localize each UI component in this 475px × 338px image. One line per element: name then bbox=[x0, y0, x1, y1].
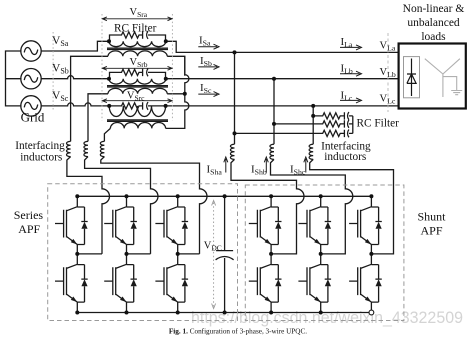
wire shunt inductor c to shunt leg3 bbox=[310, 159, 394, 254]
shunt APF dashed box bbox=[245, 185, 404, 321]
IGBT S3 top bbox=[155, 196, 188, 253]
node T_C left bbox=[107, 104, 111, 108]
ac source Vsa bbox=[21, 41, 41, 61]
svg-text:Grid: Grid bbox=[21, 110, 45, 125]
transformer T_A RC snubber (resistor + capacitor) bbox=[110, 31, 166, 41]
IGBT Sh1 top bbox=[249, 196, 282, 253]
svg-text:https://blog.csdn.net/weixin_4: https://blog.csdn.net/weixin_43322509 bbox=[191, 308, 463, 327]
wire phase B transformer to load line (hop over star) bbox=[166, 78, 399, 80]
svg-text:Series: Series bbox=[14, 208, 44, 222]
DC- bottom bus bbox=[77, 312, 371, 314]
svg-text:RC Filter: RC Filter bbox=[357, 117, 400, 129]
VDC dotted measure arrow bbox=[212, 201, 216, 309]
DC+ top bus with hops bbox=[77, 195, 371, 197]
wire shunt leg1 emitter to bus bbox=[270, 311, 272, 312]
IGBT S3 bottom bbox=[155, 254, 188, 311]
wire T_C secondary left to inductor bbox=[104, 128, 110, 141]
wire star vertical (hops over phase B and C lines) bbox=[166, 56, 189, 128]
wire phase B from source (hop over x=70.6) bbox=[41, 76, 109, 79]
node RC filter b bbox=[272, 122, 276, 126]
interfacing inductor Lc (series side) bbox=[100, 141, 104, 156]
IGBT Sh2 top bbox=[298, 196, 331, 253]
node series leg3 midpoint bbox=[176, 252, 180, 256]
wire shunt drop phase C bbox=[312, 106, 314, 144]
interfacing inductor Lb (series side) bbox=[84, 141, 88, 156]
shunt RC filter branch b bbox=[274, 120, 353, 128]
node T_A left bbox=[107, 39, 111, 43]
svg-text:APF: APF bbox=[420, 224, 442, 238]
node series leg2 top bbox=[125, 194, 129, 198]
svg-text:inductors: inductors bbox=[20, 152, 62, 164]
node shunt leg1 midpoint bbox=[269, 252, 273, 256]
IGBT S2 bottom bbox=[104, 254, 137, 311]
transformer T_C core bbox=[107, 120, 168, 121]
Vsra measure arrow bbox=[102, 17, 172, 21]
IGBT Sh3 bottom bbox=[349, 254, 382, 311]
node shunt leg2 top bbox=[319, 194, 323, 198]
node RC filter a bbox=[233, 131, 237, 135]
wire shunt leg2 emitter to bus bbox=[320, 311, 322, 312]
ac source Vsc bbox=[21, 96, 41, 116]
node series leg3 bottom bbox=[176, 311, 180, 315]
transformer T_A secondary winding bbox=[108, 51, 167, 56]
node shunt leg1 bottom bbox=[269, 311, 273, 315]
wire inductor La to series leg1 bbox=[67, 157, 110, 254]
wire inductor Lc to series leg3 bbox=[101, 157, 207, 254]
node shunt leg3 top bbox=[369, 194, 373, 198]
node T_C right bbox=[164, 104, 168, 108]
shunt RC filter branch c bbox=[313, 112, 353, 120]
transformer T_B RC snubber bbox=[110, 69, 166, 79]
svg-text:loads: loads bbox=[421, 31, 446, 43]
transformer T_C secondary winding bbox=[110, 122, 165, 128]
wire phase A transformer to load line bbox=[166, 41, 399, 52]
svg-text:APF: APF bbox=[18, 222, 40, 236]
wire series leg1 midpoint link bbox=[77, 253, 102, 255]
node phase B shunt tap bbox=[272, 77, 276, 81]
node shunt leg2 bottom bbox=[319, 311, 323, 315]
wire series leg3 emitter to bus bbox=[177, 311, 179, 312]
load box bbox=[399, 44, 466, 109]
wire series leg1 emitter to bus bbox=[76, 311, 78, 312]
node series leg1 top bbox=[75, 194, 79, 198]
transformer T_A primary winding bbox=[109, 41, 166, 46]
transformer T_B primary winding bbox=[109, 79, 166, 84]
wire inductor Lb to series leg2 bbox=[85, 157, 158, 254]
wire series leg2 emitter to bus bbox=[126, 311, 128, 312]
interfacing inductor La (series side) bbox=[66, 141, 70, 156]
wire phase C transformer to load line bbox=[166, 105, 399, 107]
diode symbol bbox=[407, 59, 416, 97]
node shunt leg2 midpoint bbox=[319, 252, 323, 256]
IGBT S1 top bbox=[55, 196, 88, 253]
svg-text:Interfacing: Interfacing bbox=[15, 140, 65, 152]
node RC filter c bbox=[311, 114, 315, 118]
series APF dashed box bbox=[48, 184, 238, 321]
node secondary star point bbox=[183, 92, 187, 96]
node T_B left bbox=[107, 77, 111, 81]
svg-text:RC Filter: RC Filter bbox=[114, 22, 157, 34]
node T_B right bbox=[164, 77, 168, 81]
node series leg1 bottom bbox=[75, 311, 79, 315]
svg-text:Fig. 1. Configuration of 3-pha: Fig. 1. Configuration of 3-phase, 3-wire… bbox=[169, 327, 307, 335]
interfacing inductor shunt a bbox=[230, 144, 234, 159]
wire T_B secondary right to star point bbox=[167, 93, 185, 95]
node series leg3 top bbox=[176, 194, 180, 198]
wire phase C from source (hops over x=70.6 and x=88) bbox=[41, 103, 109, 106]
IGBT S1 bottom bbox=[55, 254, 88, 311]
node series leg2 midpoint bbox=[125, 252, 129, 256]
dc-link capacitor VDC bbox=[216, 196, 234, 312]
node phase A shunt tap bbox=[233, 50, 237, 54]
shunt RC filter branch a (resistor + capacitor) bbox=[235, 130, 353, 138]
ac source Vsb bbox=[21, 69, 41, 89]
Vsrc measure arrow bbox=[102, 99, 172, 103]
wire T_B secondary left to inductor bbox=[88, 94, 108, 142]
node series leg2 bottom bbox=[125, 311, 129, 315]
svg-text:inductors: inductors bbox=[324, 151, 366, 163]
wire T_A secondary left to inductor bbox=[71, 56, 108, 141]
wire series leg2 midpoint link bbox=[127, 253, 151, 255]
wire T_A secondary right to star point bbox=[167, 56, 185, 75]
node shunt leg1 top bbox=[269, 194, 273, 198]
interfacing inductor shunt c bbox=[309, 144, 313, 159]
svg-text:unbalanced: unbalanced bbox=[407, 17, 460, 29]
wire shunt inductor a to shunt leg1 bbox=[231, 159, 304, 254]
wire shunt RC filter common node bbox=[352, 116, 354, 133]
transformer T_C RC on line (resistor + capacitor) bbox=[109, 102, 165, 110]
open node shunt leg3 bottom bbox=[369, 310, 374, 315]
node DC capacitor top bbox=[223, 194, 227, 198]
wire shunt inductor b to shunt leg2 bbox=[271, 159, 353, 254]
wire series leg3 midpoint link bbox=[178, 253, 200, 255]
measurement dotted line at sources bbox=[52, 32, 54, 110]
measurement dotted line Vsr right bbox=[171, 14, 173, 121]
diode rectifier block bbox=[404, 57, 420, 98]
grid bus bbox=[6, 51, 21, 106]
svg-text:Shunt: Shunt bbox=[417, 210, 446, 224]
transformer T_A core bbox=[107, 48, 168, 49]
transformer T_C primary winding bbox=[109, 106, 165, 117]
IGBT S2 top bbox=[104, 196, 137, 253]
transformer T_B core bbox=[107, 86, 168, 87]
wire phase A from source bbox=[41, 41, 109, 51]
wire shunt leg3 emitter to bus bbox=[370, 311, 372, 312]
wire shunt drop phase A bbox=[234, 52, 236, 144]
node T_A right bbox=[164, 39, 168, 43]
transformer T_B secondary winding bbox=[108, 88, 167, 93]
svg-text:Non-linear &: Non-linear & bbox=[403, 3, 465, 15]
IGBT Sh2 bottom bbox=[298, 254, 331, 311]
interfacing inductor shunt b bbox=[270, 144, 274, 159]
node series leg1 midpoint bbox=[75, 252, 79, 256]
measurement dotted line Vsr left bbox=[101, 14, 103, 121]
IGBT Sh1 bottom bbox=[249, 254, 282, 311]
measurement dashed line at load bbox=[387, 33, 389, 112]
unbalanced load Y symbol bbox=[425, 59, 462, 97]
node shunt leg3 midpoint bbox=[369, 252, 373, 256]
node phase C shunt tap bbox=[311, 104, 315, 108]
node DC capacitor bottom bbox=[223, 311, 227, 315]
Vsrb measure arrow bbox=[102, 66, 172, 70]
IGBT Sh3 top bbox=[349, 196, 382, 253]
wire shunt drop phase B bbox=[273, 79, 275, 145]
